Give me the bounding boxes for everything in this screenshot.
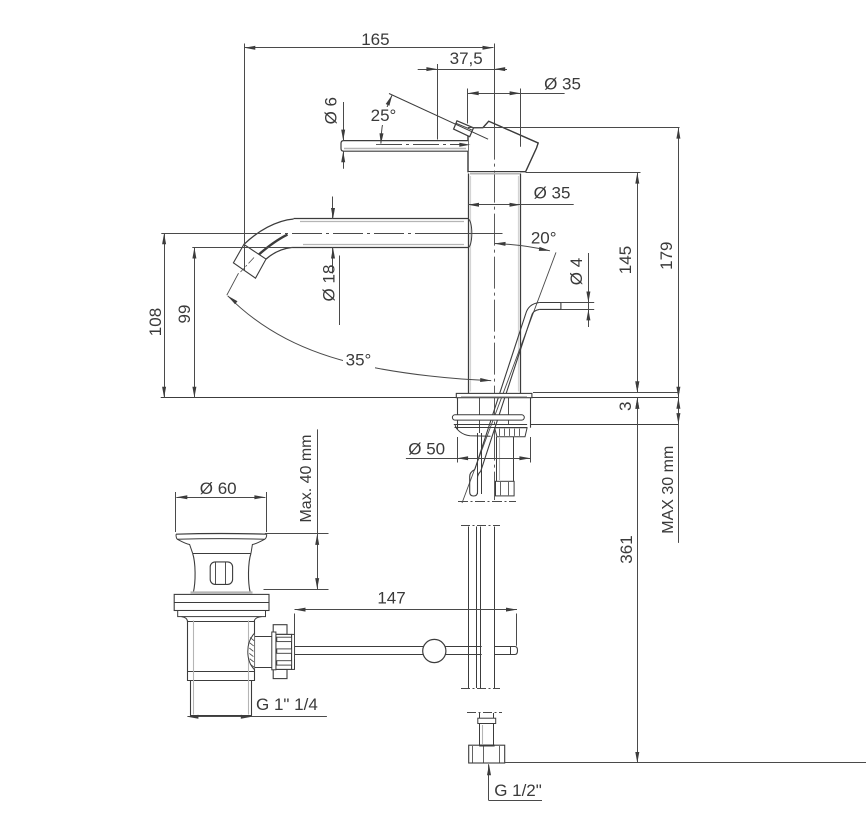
linkage ball joint — [423, 639, 446, 662]
under-deck mounting body — [458, 398, 531, 433]
ball socket arc — [248, 634, 255, 670]
extension line spout bottom (99) — [192, 247, 292, 249]
adjuster right cap — [292, 634, 295, 669]
spout centerline dash-dot — [251, 233, 443, 235]
svg-text:20°: 20° — [531, 228, 557, 247]
extension line spout centerline (108) — [161, 233, 251, 235]
faucet top assembly — [468, 121, 538, 393]
clamp collar — [174, 594, 269, 610]
svg-text:Ø 6: Ø 6 — [322, 97, 341, 124]
mounting nut band bottom — [455, 427, 528, 429]
svg-text:Ø 35: Ø 35 — [534, 183, 571, 202]
25deg handle axis line — [389, 94, 488, 140]
20deg rod axis line — [462, 252, 556, 503]
dim 179 — [657, 128, 680, 398]
housing top — [255, 636, 273, 638]
window inner left — [215, 562, 217, 584]
rod shading — [344, 148, 466, 150]
svg-text:G 1/2": G 1/2" — [494, 781, 542, 800]
svg-text:361: 361 — [617, 535, 636, 563]
deck surface line right — [532, 397, 679, 399]
dim Ø50 — [406, 437, 531, 463]
drain body left — [193, 553, 195, 592]
bottom extension line (361) — [505, 762, 866, 764]
lever rod (handle) — [341, 141, 468, 152]
adjuster left flange — [272, 632, 276, 670]
body top joint line — [193, 553, 251, 555]
shoulder left — [177, 539, 192, 553]
housing bottom — [255, 667, 273, 669]
hose shading — [499, 438, 501, 480]
rod end cap joint — [510, 647, 512, 655]
svg-text:Ø 18: Ø 18 — [319, 265, 338, 302]
connector pipe left — [479, 724, 481, 745]
taper left — [182, 617, 188, 622]
overflow window — [210, 562, 232, 585]
dim 20deg — [495, 228, 562, 250]
svg-text:MAX 30 mm: MAX 30 mm — [660, 446, 677, 534]
spout root curve in body — [468, 219, 472, 248]
dim 147 — [295, 588, 518, 659]
stub left — [479, 713, 481, 718]
extension plate top — [533, 392, 680, 394]
hex facet — [500, 482, 502, 495]
dim G 1 1/4 — [187, 695, 327, 719]
dim 108 — [146, 233, 166, 397]
svg-text:Ø 50: Ø 50 — [408, 439, 445, 458]
supply hose right — [513, 437, 515, 482]
body left shading — [470, 176, 472, 392]
body bottom gray band — [191, 591, 253, 593]
dim 145 — [526, 173, 641, 393]
dim Ø6 lever — [322, 97, 346, 169]
knurled retainer right — [495, 428, 527, 437]
spout centerline solid end — [443, 233, 503, 235]
svg-text:25°: 25° — [371, 106, 397, 125]
dim Ø4 rod — [561, 253, 594, 327]
dim 3 plate — [616, 379, 639, 411]
lower pipe section — [469, 527, 495, 689]
spout top shading — [300, 221, 464, 223]
svg-text:179: 179 — [657, 242, 676, 270]
extension cap top for 179 — [468, 127, 680, 129]
spout bend inner edge — [266, 248, 292, 260]
hex facet — [508, 482, 510, 495]
taper right — [254, 617, 261, 622]
pipe lines crossing rod — [469, 645, 495, 656]
shoulder right — [251, 539, 265, 553]
joint shading — [470, 173, 520, 175]
svg-text:165: 165 — [361, 30, 389, 49]
tailpipe top line — [187, 621, 254, 623]
lower break mark — [461, 688, 500, 690]
nut facet — [499, 746, 501, 763]
tailpipe band line — [187, 671, 254, 673]
svg-text:3: 3 — [616, 402, 635, 411]
body right edge — [520, 174, 522, 394]
collar mid line — [174, 602, 269, 604]
dim 37,5 — [418, 49, 507, 140]
dim 25deg — [370, 95, 399, 144]
thread left — [190, 681, 192, 716]
flange left edge — [176, 534, 177, 539]
socket hatching — [249, 638, 254, 668]
spout top edge — [294, 218, 468, 220]
thread right — [251, 681, 253, 716]
thread start line — [187, 680, 254, 682]
body left edge — [468, 174, 470, 394]
stub right — [493, 713, 495, 718]
spout aerator ring — [233, 244, 266, 278]
break mark above connector — [467, 712, 502, 714]
upper break mark — [461, 525, 500, 527]
svg-text:37,5: 37,5 — [450, 49, 483, 68]
supply hose left — [496, 437, 498, 482]
horseshoe washer — [452, 415, 524, 420]
pop-up linkage rod — [295, 647, 518, 655]
dim 99 — [175, 248, 197, 398]
spout bend outer edge — [244, 219, 294, 244]
pop-up rod Ø4 — [470, 303, 561, 497]
deck surface line left — [161, 397, 457, 399]
adjuster slots — [277, 637, 292, 665]
spout bend inner heavy arc — [256, 235, 288, 258]
dim Ø35 cap — [468, 74, 581, 146]
body right shading — [518, 176, 520, 392]
flange right edge — [265, 534, 267, 539]
handle cap (tilted 25deg) — [468, 121, 538, 172]
tailpipe right — [254, 621, 256, 682]
svg-text:Ø 35: Ø 35 — [544, 74, 581, 93]
connector collar — [478, 718, 496, 723]
spout tip axis dash — [241, 258, 255, 273]
handle boss on cap — [454, 121, 474, 137]
boss inner line — [456, 123, 472, 130]
break line dash-dot — [458, 501, 516, 503]
connector pipe right — [493, 724, 495, 745]
nut facet — [483, 746, 485, 763]
nut facet — [472, 746, 474, 763]
nut bottom curve left — [455, 424, 491, 436]
plate shading — [461, 396, 527, 398]
svg-text:Ø 4: Ø 4 — [567, 258, 586, 285]
dim Ø60 — [176, 479, 267, 532]
drain flange top rim — [176, 533, 267, 536]
mounting nut top — [454, 424, 527, 426]
spout axis extension for 35deg — [227, 273, 239, 295]
svg-text:108: 108 — [146, 308, 165, 336]
svg-text:35°: 35° — [346, 350, 372, 369]
adjuster top tab — [273, 625, 287, 635]
drain pop-up waste assembly — [174, 534, 294, 716]
tailpipe shading l — [193, 621, 195, 715]
dim Ø18 spout — [319, 197, 339, 326]
collar lower band — [178, 611, 266, 617]
spout bottom edge — [292, 247, 468, 249]
threaded rod left edge — [477, 433, 479, 494]
dim MAX 30 mm — [660, 398, 680, 543]
dim 35deg arc — [228, 296, 492, 382]
cap outline — [468, 121, 538, 172]
rod centerline arrow — [459, 143, 470, 147]
faucet vertical centerline (dash-dot) — [494, 128, 496, 500]
nut top dark band — [479, 745, 494, 747]
svg-text:G 1" 1/4: G 1" 1/4 — [256, 695, 318, 714]
svg-text:99: 99 — [175, 305, 194, 324]
svg-text:Max. 40 mm: Max. 40 mm — [298, 434, 315, 522]
thread bottom — [190, 715, 252, 717]
pipe shading — [482, 725, 484, 744]
pipe hides rod — [482, 645, 495, 655]
window inner right — [225, 562, 227, 584]
flange rim bottom — [177, 538, 265, 541]
faucet body fill — [469, 172, 520, 394]
dim Max. 40 mm — [264, 429, 329, 589]
spout bottom shading — [303, 244, 464, 246]
dim 361 — [617, 398, 640, 763]
extension line at centerline (165/37.5 dims) — [494, 44, 496, 76]
cap/body joint line — [468, 171, 526, 173]
rod centerline — [376, 144, 462, 146]
label G 1/2 — [487, 764, 542, 800]
base plate (3mm) — [456, 393, 532, 397]
dim Ø35 body — [468, 183, 574, 206]
svg-text:147: 147 — [377, 588, 405, 607]
G1/2 hex nut — [469, 745, 505, 763]
adjuster bottom tab — [273, 669, 287, 678]
threaded rod right edge — [481, 433, 483, 494]
tailpipe shading r — [248, 621, 250, 715]
svg-text:145: 145 — [616, 246, 635, 274]
svg-text:Ø 60: Ø 60 — [200, 479, 237, 498]
drain body right — [248, 553, 251, 592]
adjuster nut body — [276, 634, 292, 669]
hose hex nut — [496, 481, 515, 496]
tailpipe left — [187, 621, 189, 682]
deck bottom line — [531, 424, 679, 426]
knurl ticks — [500, 429, 520, 436]
dim 165 top — [244, 30, 493, 270]
